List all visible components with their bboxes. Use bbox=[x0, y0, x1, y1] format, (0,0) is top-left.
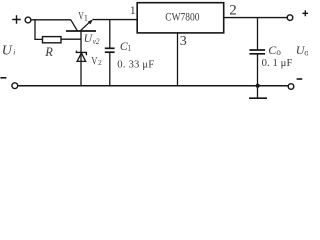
svg-text:i: i bbox=[13, 48, 15, 57]
svg-text:o: o bbox=[276, 47, 281, 57]
junction dot output node bbox=[256, 84, 260, 88]
capacitor C1 bbox=[105, 20, 115, 86]
label Ui bbox=[2, 44, 16, 59]
zener diode V2 bbox=[76, 51, 86, 62]
svg-text:CW7800: CW7800 bbox=[165, 9, 199, 23]
terminal input negative bbox=[0, 78, 17, 89]
svg-text:2: 2 bbox=[229, 2, 237, 18]
svg-text:1: 1 bbox=[130, 3, 136, 17]
wire input top bbox=[31, 19, 71, 21]
label C0 bbox=[268, 43, 281, 57]
svg-text:0. 1 μF: 0. 1 μF bbox=[262, 57, 293, 69]
label Uv2 bbox=[84, 31, 101, 46]
wire regulator pin 2 to output bbox=[225, 17, 288, 19]
resistor R bbox=[43, 37, 62, 43]
svg-text:R: R bbox=[44, 45, 53, 59]
regulator U1 CW7800 box bbox=[137, 3, 224, 33]
ground bbox=[249, 97, 267, 99]
svg-text:U: U bbox=[2, 44, 13, 59]
wire input to resistor R bbox=[35, 20, 43, 40]
svg-text:1: 1 bbox=[127, 44, 131, 53]
wire emitter to regulator pin 1 bbox=[93, 19, 138, 21]
svg-text:v2: v2 bbox=[93, 36, 100, 46]
svg-text:o: o bbox=[304, 47, 308, 57]
transistor V1 bbox=[66, 20, 96, 32]
svg-text:2: 2 bbox=[98, 58, 102, 67]
label V1 bbox=[78, 11, 88, 23]
svg-text:3: 3 bbox=[180, 34, 187, 49]
capacitor C0 bbox=[249, 18, 265, 98]
terminal input positive bbox=[12, 15, 31, 24]
svg-text:V: V bbox=[91, 55, 98, 67]
label U0 bbox=[296, 43, 310, 57]
svg-text:0. 33 μF: 0. 33 μF bbox=[117, 59, 154, 71]
terminal output positive bbox=[287, 10, 308, 20]
bottom rail wire bbox=[18, 85, 288, 87]
svg-text:1: 1 bbox=[84, 12, 88, 22]
wire resistor to base node bbox=[61, 38, 81, 40]
terminal output negative bbox=[288, 79, 302, 89]
label V2 bbox=[91, 55, 102, 67]
base lead wire down bbox=[80, 31, 82, 86]
label C1 bbox=[120, 40, 131, 53]
pin 3 lead wire bbox=[177, 34, 179, 87]
